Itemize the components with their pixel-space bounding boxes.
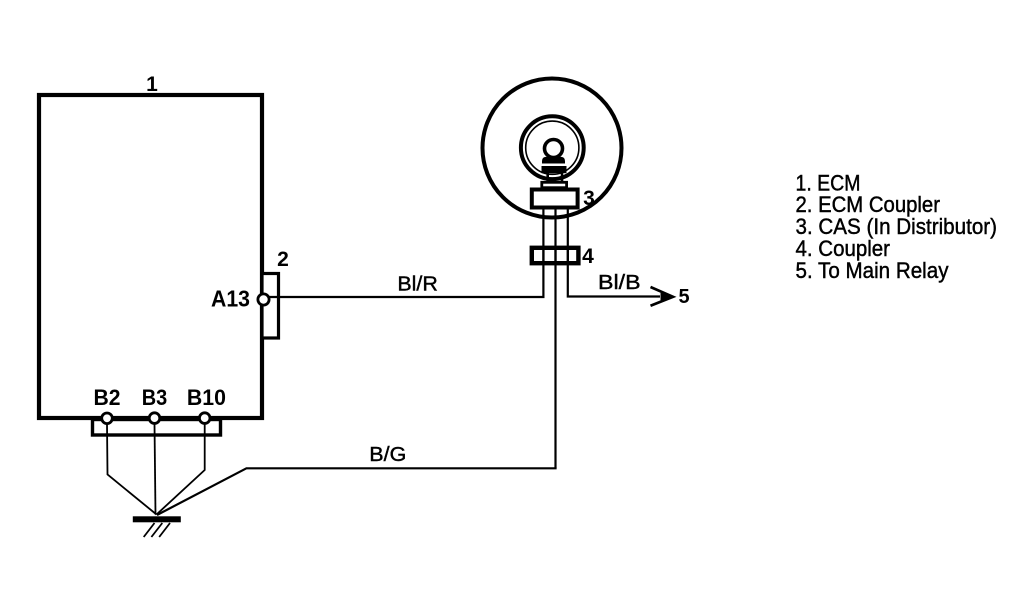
wire pin middle 3-4 — [554, 209, 556, 248]
svg-text:4: 4 — [582, 245, 594, 268]
ECM bottom connector bar — [93, 420, 221, 436]
wire B2 to ground — [107, 424, 157, 515]
wire Bl/R from A13 to coupler 4 left pin — [266, 262, 543, 297]
ECM coupler 2 — [262, 274, 279, 339]
svg-text:Bl/B: Bl/B — [598, 272, 641, 294]
rotor stem right — [561, 173, 564, 182]
ground hatch 1 — [144, 523, 155, 537]
ground symbol bar — [133, 516, 181, 522]
ECM box 1 — [39, 95, 262, 418]
rotor stem left — [546, 173, 549, 182]
distributor cap ring inner — [526, 121, 579, 174]
wire B/G vertical from coupler 4 middle pin — [554, 263, 556, 468]
CAS neck — [542, 182, 567, 187]
rotor base bar — [542, 166, 567, 173]
svg-text:3: 3 — [583, 187, 595, 210]
wire B3 to ground — [155, 424, 156, 515]
terminal A13 — [258, 294, 269, 305]
distributor outer circle — [483, 79, 622, 218]
coupler 4 inner cell bars — [542, 246, 544, 265]
distributor cap ring outer — [521, 116, 584, 179]
svg-text:5. To Main Relay: 5. To Main Relay — [796, 258, 950, 283]
svg-text:1: 1 — [146, 73, 158, 96]
wire B/G horizontal — [157, 468, 557, 515]
terminal B10 — [199, 413, 210, 424]
svg-text:Bl/R: Bl/R — [397, 273, 438, 295]
arrow head 5 — [651, 287, 674, 306]
svg-text:A13: A13 — [211, 286, 250, 312]
svg-text:B3: B3 — [142, 385, 168, 410]
svg-text:B/G: B/G — [369, 444, 406, 466]
terminal B2 — [102, 413, 113, 424]
svg-text:B2: B2 — [94, 385, 121, 410]
svg-text:B10: B10 — [187, 385, 226, 410]
rotor body — [542, 157, 565, 164]
wire pin left 3-4 — [542, 209, 544, 248]
wire pin right 3-4 — [567, 209, 569, 248]
ground hatch 3 — [159, 523, 170, 537]
CAS body 3 — [532, 190, 578, 208]
svg-text:2: 2 — [277, 248, 289, 271]
wire B10 to ground — [157, 424, 205, 515]
rotor shaft circle — [545, 140, 563, 158]
ground hatch 2 — [151, 523, 162, 537]
terminal B3 — [149, 413, 160, 424]
wire Bl/B to main relay — [568, 263, 660, 297]
svg-text:5: 5 — [678, 286, 689, 308]
coupler 4 — [532, 248, 579, 263]
